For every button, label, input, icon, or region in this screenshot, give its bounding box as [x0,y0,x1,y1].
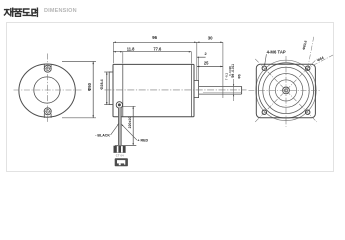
svg-text:+ RED: + RED [137,139,148,143]
svg-text:96: 96 [152,35,157,40]
svg-text:77.6: 77.6 [153,46,162,51]
svg-text:4-M6 TAP: 4-M6 TAP [267,50,286,55]
svg-text:25: 25 [204,60,209,65]
svg-text:Φ28.4: Φ28.4 [100,78,104,89]
svg-text:Φ8 -0.011: Φ8 -0.011 [231,64,235,78]
svg-text:11.8: 11.8 [127,46,135,51]
svg-text:220±10: 220±10 [128,117,132,129]
svg-text:2: 2 [205,51,208,56]
svg-text:Φ6: Φ6 [237,74,241,79]
svg-text:Φ64: Φ64 [317,56,325,63]
svg-text:Φ50: Φ50 [87,82,92,91]
svg-text:Φ63.6: Φ63.6 [302,40,308,50]
svg-text:30: 30 [208,35,213,40]
svg-text:- BLACK: - BLACK [95,134,110,138]
svg-text:CT 04: CT 04 [116,154,124,158]
